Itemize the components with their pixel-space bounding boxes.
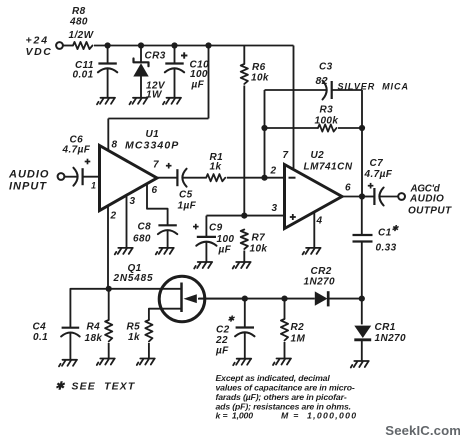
svg-text:82: 82 bbox=[316, 75, 328, 87]
svg-text:U1: U1 bbox=[146, 129, 160, 140]
svg-text:10k: 10k bbox=[251, 73, 269, 84]
svg-text:7: 7 bbox=[153, 160, 159, 171]
svg-text:SeekIC.com: SeekIC.com bbox=[385, 423, 460, 438]
svg-text:CR3: CR3 bbox=[145, 51, 166, 62]
svg-text:4.7µF: 4.7µF bbox=[62, 145, 91, 156]
svg-text:1W: 1W bbox=[146, 90, 163, 101]
svg-text:3: 3 bbox=[130, 196, 136, 207]
svg-text:R6: R6 bbox=[252, 62, 266, 73]
svg-text:2N5485: 2N5485 bbox=[113, 273, 154, 284]
svg-text:Except as indicated, decimal: Except as indicated, decimal bbox=[216, 373, 331, 383]
svg-text:C4: C4 bbox=[33, 322, 47, 333]
svg-text:+24: +24 bbox=[26, 35, 50, 47]
svg-text:1/2W: 1/2W bbox=[69, 30, 95, 41]
svg-text:0.33: 0.33 bbox=[376, 243, 397, 254]
svg-text:VDC: VDC bbox=[26, 46, 53, 58]
svg-text:2: 2 bbox=[270, 166, 277, 177]
svg-text:M = 1,000,000: M = 1,000,000 bbox=[281, 411, 357, 421]
svg-text:4: 4 bbox=[316, 216, 323, 227]
svg-text:1: 1 bbox=[91, 181, 96, 191]
svg-text:100: 100 bbox=[190, 69, 208, 80]
svg-text:SILVER MICA: SILVER MICA bbox=[338, 82, 409, 92]
svg-text:LM741CN: LM741CN bbox=[304, 162, 353, 173]
svg-text:8: 8 bbox=[112, 140, 118, 151]
svg-text:2: 2 bbox=[110, 211, 117, 222]
svg-text:✱: ✱ bbox=[392, 224, 400, 233]
svg-text:✱: ✱ bbox=[55, 381, 66, 393]
svg-text:CR2: CR2 bbox=[311, 266, 332, 277]
svg-text:U2: U2 bbox=[311, 150, 325, 161]
svg-text:1k: 1k bbox=[128, 332, 140, 343]
svg-text:µF: µF bbox=[218, 245, 232, 256]
svg-text:6: 6 bbox=[152, 185, 158, 196]
svg-text:C8: C8 bbox=[138, 222, 152, 233]
svg-text:C7: C7 bbox=[370, 158, 384, 169]
svg-text:C3: C3 bbox=[319, 62, 333, 73]
svg-text:100k: 100k bbox=[315, 116, 339, 127]
svg-text:680: 680 bbox=[133, 234, 151, 245]
svg-text:1µF: 1µF bbox=[178, 201, 197, 212]
svg-text:22: 22 bbox=[215, 335, 228, 346]
svg-text:C5: C5 bbox=[179, 190, 193, 201]
svg-text:AUDIO: AUDIO bbox=[409, 194, 444, 205]
svg-text:C2: C2 bbox=[216, 325, 230, 336]
svg-text:OUTPUT: OUTPUT bbox=[408, 206, 452, 217]
svg-text:7: 7 bbox=[283, 150, 289, 161]
svg-text:R8: R8 bbox=[72, 6, 86, 17]
svg-text:1k: 1k bbox=[210, 162, 222, 173]
svg-text:6: 6 bbox=[345, 183, 351, 194]
svg-text:C9: C9 bbox=[209, 223, 223, 234]
svg-text:1M: 1M bbox=[291, 334, 306, 345]
svg-text:✱: ✱ bbox=[228, 315, 236, 324]
svg-text:k = 1,000: k = 1,000 bbox=[216, 411, 254, 421]
svg-text:1N270: 1N270 bbox=[304, 277, 336, 288]
svg-text:R4: R4 bbox=[87, 322, 101, 333]
svg-text:18k: 18k bbox=[85, 333, 103, 344]
svg-text:INPUT: INPUT bbox=[9, 181, 47, 193]
svg-text:1N270: 1N270 bbox=[375, 333, 407, 344]
svg-text:4.7µF: 4.7µF bbox=[364, 169, 393, 180]
svg-text:3: 3 bbox=[272, 203, 278, 214]
svg-text:C1: C1 bbox=[378, 228, 392, 239]
svg-text:10k: 10k bbox=[250, 244, 268, 255]
svg-text:R2: R2 bbox=[291, 322, 305, 333]
svg-text:R7: R7 bbox=[252, 233, 266, 244]
svg-text:R3: R3 bbox=[320, 105, 334, 116]
svg-text:R5: R5 bbox=[127, 322, 141, 333]
svg-text:100: 100 bbox=[217, 234, 235, 245]
svg-text:480: 480 bbox=[69, 17, 88, 28]
svg-text:0.01: 0.01 bbox=[73, 70, 94, 81]
svg-text:MC3340P: MC3340P bbox=[125, 140, 179, 152]
svg-text:AUDIO: AUDIO bbox=[8, 169, 49, 181]
svg-text:SEE TEXT: SEE TEXT bbox=[72, 382, 136, 393]
svg-text:0.1: 0.1 bbox=[33, 332, 48, 343]
svg-text:CR1: CR1 bbox=[375, 322, 396, 333]
svg-text:µF: µF bbox=[191, 80, 205, 91]
svg-text:µF: µF bbox=[215, 346, 229, 357]
